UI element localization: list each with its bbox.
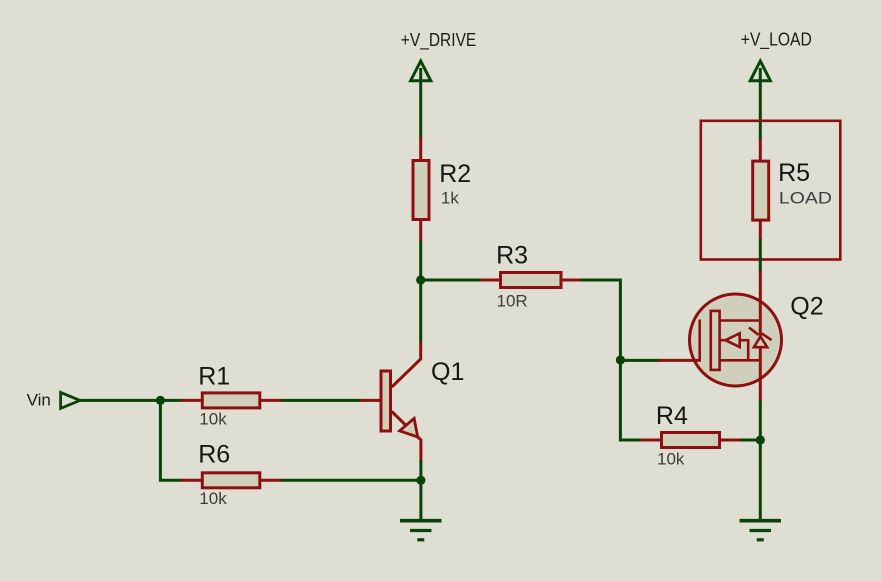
wire: node C down to R6 row bbox=[160, 400, 181, 480]
R4 left pin bbox=[640, 439, 662, 442]
ground (right) bbox=[740, 521, 782, 540]
collector lead bbox=[392, 342, 421, 387]
node E junction dot bbox=[756, 435, 765, 444]
svg-text:R4: R4 bbox=[656, 402, 688, 430]
R2 bottom pin bbox=[419, 221, 422, 242]
svg-text:+V_LOAD: +V_LOAD bbox=[741, 30, 812, 51]
base pin bbox=[360, 399, 380, 402]
wire: R6 to emitter node bbox=[281, 479, 421, 482]
svg-text:R6: R6 bbox=[198, 441, 230, 469]
node C junction dot bbox=[156, 396, 165, 405]
R6 left pin bbox=[181, 479, 203, 482]
body circle bbox=[690, 294, 782, 386]
node D junction dot bbox=[416, 476, 425, 485]
node B junction dot bbox=[616, 355, 625, 364]
svg-text:Vin: Vin bbox=[27, 391, 51, 410]
mosfet Q2 bbox=[658, 270, 824, 401]
R1 left pin bbox=[181, 399, 203, 402]
R5 bottom pin bbox=[759, 221, 762, 240]
resistor R1 bbox=[202, 393, 259, 408]
wire: node C to R1 bbox=[160, 399, 181, 402]
power terminal +V_DRIVE bbox=[411, 61, 431, 139]
resistor R6 bbox=[202, 473, 259, 488]
wire: node B to Q2 gate bbox=[620, 359, 660, 362]
transistor Q1 bbox=[360, 342, 464, 462]
svg-text:R3: R3 bbox=[496, 242, 528, 270]
svg-text:Q2: Q2 bbox=[790, 293, 823, 321]
resistor R5 bbox=[753, 161, 769, 220]
node A junction dot bbox=[416, 275, 425, 284]
svg-text:R1: R1 bbox=[198, 363, 230, 391]
svg-text:10k: 10k bbox=[199, 410, 227, 429]
input terminal Vin bbox=[61, 392, 80, 408]
load outline box bbox=[701, 121, 841, 260]
wire: R5 to Q2 drain bbox=[759, 239, 762, 272]
R3 left pin bbox=[480, 279, 502, 282]
channel bar bbox=[711, 311, 720, 370]
svg-text:10k: 10k bbox=[657, 449, 685, 468]
wire: emitter to ground node bbox=[419, 460, 422, 520]
wire: R4 to node E bbox=[741, 439, 761, 442]
gate electrode bbox=[698, 320, 701, 362]
emitter arrow bbox=[400, 418, 418, 437]
resistor R4 bbox=[662, 433, 720, 448]
svg-text:10R: 10R bbox=[497, 291, 528, 310]
top channel link bbox=[720, 319, 761, 322]
svg-text:10k: 10k bbox=[199, 489, 227, 508]
wire: node B down to R4 bbox=[620, 360, 641, 440]
wire: R1 to Q1 base bbox=[281, 399, 361, 402]
wire: +V_DRIVE to R2 pin (maroon pin stub) bbox=[419, 137, 422, 160]
svg-text:1k: 1k bbox=[441, 188, 459, 207]
svg-text:LOAD: LOAD bbox=[779, 189, 832, 208]
wire: Q2 source down to ground bbox=[759, 400, 762, 520]
svg-text:Q1: Q1 bbox=[431, 358, 464, 386]
svg-text:R5: R5 bbox=[778, 159, 810, 187]
resistor R3 bbox=[501, 273, 562, 288]
body diode bbox=[754, 337, 767, 348]
drain-source vertical lead bbox=[759, 270, 762, 401]
emitter lead bbox=[392, 412, 421, 463]
ground (left) bbox=[400, 521, 442, 540]
R3 right pin bbox=[561, 279, 581, 282]
wire: node A to R3 bbox=[421, 279, 482, 282]
substrate link with arrow bbox=[739, 339, 748, 342]
gate pin bbox=[658, 359, 701, 362]
R4 right pin bbox=[721, 439, 742, 442]
svg-text:R2: R2 bbox=[439, 160, 471, 188]
wire: Vin to node C bbox=[80, 399, 161, 402]
wire: R2 to node A and Q1 collector bbox=[419, 241, 422, 342]
R1 right pin bbox=[261, 399, 282, 402]
R6 right pin bbox=[261, 479, 282, 482]
R5 top pin bbox=[759, 139, 762, 161]
bottom channel link bbox=[720, 359, 761, 362]
base bar bbox=[381, 371, 391, 431]
power terminal +V_LOAD bbox=[750, 61, 770, 140]
svg-text:+V_DRIVE: +V_DRIVE bbox=[401, 30, 477, 51]
resistor R2 bbox=[413, 161, 429, 220]
wire: R3 to gate node bbox=[580, 280, 620, 360]
